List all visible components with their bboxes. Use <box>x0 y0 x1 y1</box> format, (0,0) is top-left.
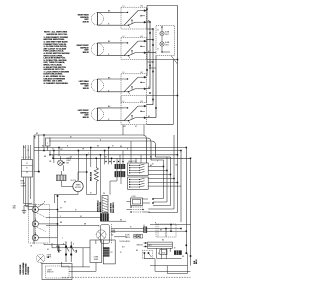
surface element SE4 <box>78 108 104 121</box>
wire ladder <box>164 135 192 266</box>
label door latch switch <box>120 240 144 248</box>
clock motor M1 <box>54 171 87 203</box>
wire bottom runs <box>61 222 190 273</box>
svg-text:GY: GY <box>105 157 107 159</box>
svg-text:LIGHT: LIGHT <box>47 270 52 272</box>
svg-text:IGNITOR WIRE: IGNITOR WIRE <box>100 202 102 212</box>
disconnect plugs <box>146 32 157 109</box>
svg-text:L1: L1 <box>123 36 125 38</box>
svg-text:LOCK MOTOR: LOCK MOTOR <box>111 202 113 213</box>
svg-text:TEMP: TEMP <box>94 259 98 261</box>
latch contacts <box>35 209 36 239</box>
svg-text:L1: L1 <box>123 72 125 74</box>
svg-text:BK: BK <box>97 146 99 148</box>
wire <box>148 199 177 213</box>
svg-text:HTR: HTR <box>149 245 152 247</box>
wire <box>97 41 123 56</box>
wire <box>147 9 178 124</box>
ribbon cable <box>144 242 173 248</box>
infinite switch S4 <box>121 101 147 125</box>
junction <box>146 8 178 96</box>
svg-text:BK-L1: BK-L1 <box>196 259 198 264</box>
svg-text:OVEN: OVEN <box>94 257 98 259</box>
svg-text:PK: PK <box>103 193 105 195</box>
oven light assembly <box>36 254 72 279</box>
svg-text:LIGHT: LIGHT <box>66 160 71 162</box>
wire <box>155 56 157 118</box>
infinite switch S2 <box>121 36 147 60</box>
wire <box>152 29 154 105</box>
svg-text:L1: L1 <box>26 163 28 165</box>
svg-text:CLOCK: CLOCK <box>71 180 77 182</box>
wire power leads <box>21 145 35 210</box>
surface element SE2 <box>77 43 104 56</box>
wire <box>186 231 188 254</box>
svg-text:GY: GY <box>135 126 137 128</box>
TOD thermal switch <box>157 248 192 258</box>
svg-text:BK: BK <box>64 202 66 204</box>
wire L2 bus <box>177 6 179 155</box>
svg-text:SWITCH: SWITCH <box>47 272 54 274</box>
svg-text:2600 W: 2600 W <box>83 52 89 54</box>
svg-text:1500 W: 1500 W <box>83 88 89 90</box>
svg-text:GY: GY <box>60 208 62 210</box>
svg-text:ON LT: ON LT <box>165 44 169 46</box>
svg-text:BROIL ELEM: BROIL ELEM <box>91 171 93 181</box>
wire <box>123 125 144 136</box>
wire <box>149 22 151 89</box>
wire fan <box>148 165 181 187</box>
svg-text:BK: BK <box>160 229 162 231</box>
svg-text:Y: Y <box>88 153 89 155</box>
console boundary <box>34 135 37 244</box>
svg-text:L2: L2 <box>26 172 28 174</box>
svg-text:H2: H2 <box>141 36 143 38</box>
svg-text:SELECTOR: SELECTOR <box>128 161 137 163</box>
svg-text:2B: 2B <box>30 246 32 248</box>
svg-text:BK: BK <box>136 250 138 252</box>
console dashed boundary <box>62 276 191 278</box>
svg-text:H2: H2 <box>141 6 143 8</box>
svg-text:2600 W: 2600 W <box>83 117 89 119</box>
svg-text:1: 1 <box>47 143 48 145</box>
notes block <box>44 31 70 85</box>
indicator light box <box>156 26 178 65</box>
svg-text:BU: BU <box>70 157 72 159</box>
svg-text:2100 W: 2100 W <box>83 21 89 23</box>
svg-text:H2: H2 <box>141 72 143 74</box>
relay coil K1 <box>56 175 66 186</box>
svg-text:L1: L1 <box>123 6 125 8</box>
door latch label <box>20 262 30 275</box>
latch switch assembly <box>29 203 50 243</box>
wire bus band <box>34 133 191 163</box>
svg-text:BK: BK <box>150 157 152 159</box>
wire <box>97 106 123 121</box>
wire <box>97 77 123 92</box>
wire <box>43 134 53 159</box>
svg-text:LOCK: LOCK <box>132 196 136 198</box>
svg-text:B: B <box>73 244 74 246</box>
svg-text:L1: L1 <box>123 101 125 103</box>
wire L1 bus <box>147 6 178 76</box>
svg-text:SWITCH: SWITCH <box>137 244 144 246</box>
svg-text:BU: BU <box>162 240 164 242</box>
selector switch <box>105 161 148 189</box>
pilot lamp <box>58 158 72 165</box>
lock motor K2 <box>127 196 154 212</box>
svg-text:GY: GY <box>47 249 49 251</box>
svg-text:V: V <box>157 161 158 163</box>
svg-text:Y: Y <box>62 238 63 240</box>
infinite switch S3 <box>121 72 147 96</box>
surface element SE1 <box>78 12 104 25</box>
svg-text:9. CABINET GROUNDED.: 9. CABINET GROUNDED. <box>44 82 69 85</box>
svg-text:L2: L2 <box>29 157 31 159</box>
door switch S5 <box>59 242 78 263</box>
svg-text:GY: GY <box>80 216 82 218</box>
wire <box>38 195 126 238</box>
svg-text:BK: BK <box>23 147 25 149</box>
svg-text:ON LT: ON LT <box>165 34 169 36</box>
door switch label <box>125 234 143 239</box>
wire <box>97 11 123 26</box>
wire <box>34 135 141 196</box>
terminal block TB1 <box>22 160 33 178</box>
svg-text:L1: L1 <box>22 157 24 159</box>
wire <box>45 221 191 232</box>
connector block CN4 <box>144 227 147 233</box>
svg-text:H1: H1 <box>148 116 150 118</box>
svg-text:P3: P3 <box>111 252 113 254</box>
svg-text:B: B <box>158 49 159 51</box>
wire labels <box>30 146 176 255</box>
connector block CN3 <box>110 169 125 195</box>
infinite switch S1 <box>121 6 147 30</box>
ground <box>22 206 28 214</box>
svg-text:N: N <box>25 157 26 159</box>
svg-text:SP2: SP2 <box>123 126 126 128</box>
svg-text:4 WIRE: 4 WIRE <box>21 186 26 188</box>
oven lamp <box>96 224 127 244</box>
svg-text:IN UNLOCKED: IN UNLOCKED <box>25 263 27 275</box>
connector P1 <box>46 138 51 151</box>
svg-text:DOOR SW: DOOR SW <box>59 245 61 253</box>
connector block CN2 <box>115 164 125 168</box>
svg-text:POSITION: POSITION <box>28 266 30 274</box>
oven thermostat <box>90 240 102 262</box>
svg-text:BK: BK <box>182 256 184 258</box>
interlock dashed box <box>156 224 176 237</box>
svg-text:SHOWN IN OFF POS.: SHOWN IN OFF POS. <box>47 34 68 36</box>
wire <box>172 60 174 125</box>
wire <box>44 238 90 267</box>
connector P2 <box>97 196 115 222</box>
svg-text:OVEN DOOR: OVEN DOOR <box>20 264 22 275</box>
svg-text:DOOR SWITCH: DOOR SWITCH <box>113 203 115 213</box>
thermal fuse <box>142 250 155 258</box>
wire <box>147 61 156 68</box>
wire <box>121 96 147 128</box>
svg-text:LIGHT: LIGHT <box>47 257 52 259</box>
svg-text:BK: BK <box>42 146 44 148</box>
surface element SE3 <box>79 79 104 92</box>
connector P3 <box>103 240 115 264</box>
svg-text:MOTOR: MOTOR <box>75 187 82 189</box>
broil element <box>91 168 99 195</box>
svg-text:BK: BK <box>120 219 122 221</box>
svg-text:H2: H2 <box>141 101 143 103</box>
ground label <box>13 205 17 210</box>
label neutral <box>194 259 198 264</box>
